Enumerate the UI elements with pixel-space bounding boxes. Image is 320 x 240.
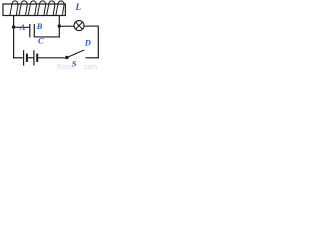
lamp D cross stroke 1 (76, 22, 83, 29)
svg-text:L: L (75, 2, 82, 12)
wire right branch vertical (58, 16, 60, 38)
switch S lever (67, 50, 84, 58)
inductor L winding turn 5 (47, 1, 55, 16)
inductor L winding turn 6 (56, 1, 64, 16)
wire lamp right (84, 25, 98, 27)
svg-text:Eeru: Eeru (57, 64, 72, 71)
wire bottom middle (38, 57, 67, 59)
wire capacitor branch left (14, 26, 30, 28)
inductor L core rectangle (3, 4, 65, 16)
svg-text:A: A (19, 22, 26, 32)
battery inter-cell wire (27, 57, 34, 59)
node left junction dot (12, 25, 15, 28)
lamp D cross stroke 2 (76, 22, 83, 29)
svg-text:D: D (84, 38, 91, 48)
wire lamp left (59, 25, 74, 27)
battery cell 2 short plate (36, 54, 38, 62)
battery cell 2 long plate (33, 50, 35, 65)
capacitor C left plate (29, 24, 31, 37)
svg-text:B: B (36, 21, 43, 31)
lamp D circle (74, 21, 84, 31)
wire bottom left (13, 57, 24, 59)
wire capacitor branch right (34, 36, 60, 38)
inductor L winding turn 4 (37, 1, 45, 16)
wire bottom right (86, 57, 99, 59)
inductor L winding turn 3 (28, 1, 36, 16)
svg-text:S: S (72, 59, 77, 69)
switch S pivot dot (65, 56, 68, 59)
capacitor C right plate (33, 24, 35, 37)
inductor L winding turn 1 (10, 1, 18, 16)
battery cell 1 short plate (26, 54, 28, 62)
wire right vertical (97, 26, 99, 59)
inductor L winding turn 2 (19, 1, 27, 16)
node right junction dot (58, 24, 61, 27)
battery cell 1 long plate (23, 50, 25, 65)
svg-text:com: com (84, 64, 97, 71)
wire left vertical (13, 16, 15, 59)
